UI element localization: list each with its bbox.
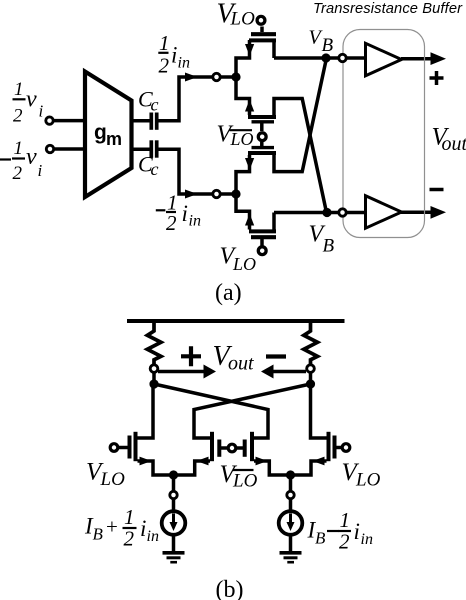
svg-text:c: c xyxy=(151,159,159,179)
svg-text:+: + xyxy=(106,515,118,539)
svg-text:i: i xyxy=(171,43,177,68)
svg-text:B: B xyxy=(323,236,335,257)
svg-text:Transresistance Buffer: Transresistance Buffer xyxy=(313,1,463,17)
svg-text:in: in xyxy=(178,55,190,72)
svg-text:B: B xyxy=(93,525,104,544)
svg-text:in: in xyxy=(147,528,159,545)
svg-text:1: 1 xyxy=(340,508,351,532)
svg-text:LO: LO xyxy=(100,469,126,490)
svg-text:2: 2 xyxy=(124,527,135,551)
svg-text:B: B xyxy=(315,529,326,548)
svg-text:c: c xyxy=(151,95,159,115)
svg-text:out: out xyxy=(228,353,254,375)
svg-text:g: g xyxy=(94,121,107,144)
svg-text:v: v xyxy=(26,86,37,112)
svg-text:i: i xyxy=(38,161,43,180)
svg-text:m: m xyxy=(106,129,122,149)
svg-text:2: 2 xyxy=(159,54,170,78)
svg-text:2: 2 xyxy=(339,530,350,554)
svg-text:out: out xyxy=(442,133,466,155)
svg-text:LO: LO xyxy=(232,254,256,274)
svg-text:i: i xyxy=(140,516,146,541)
svg-text:i: i xyxy=(354,519,360,544)
svg-text:2: 2 xyxy=(13,163,23,184)
svg-text:(b): (b) xyxy=(216,577,244,600)
svg-text:1: 1 xyxy=(159,31,170,55)
svg-text:1: 1 xyxy=(124,505,135,529)
svg-text:1: 1 xyxy=(14,79,24,100)
svg-text:(a): (a) xyxy=(215,280,242,306)
svg-text:v: v xyxy=(26,144,37,170)
svg-text:i: i xyxy=(182,201,188,226)
svg-text:2: 2 xyxy=(13,106,23,127)
svg-text:B: B xyxy=(322,35,334,56)
svg-text:in: in xyxy=(189,213,201,230)
svg-text:2: 2 xyxy=(166,211,177,235)
svg-text:1: 1 xyxy=(14,138,24,159)
svg-text:LO: LO xyxy=(230,129,254,149)
svg-text:LO: LO xyxy=(355,470,381,491)
svg-text:LO: LO xyxy=(232,471,258,492)
svg-text:in: in xyxy=(361,531,373,548)
svg-text:i: i xyxy=(39,102,44,121)
svg-text:LO: LO xyxy=(230,9,256,30)
